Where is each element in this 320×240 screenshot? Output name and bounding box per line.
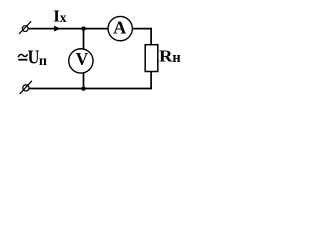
voltmeter PV1 [69, 49, 93, 73]
current direction arrow Ix [54, 26, 60, 32]
wire voltmeter top lead [83, 29, 85, 49]
node junction top (voltmeter tap) [81, 26, 85, 30]
terminal X2 (bottom-left input terminal) [20, 81, 32, 94]
svg-text:п: п [39, 54, 47, 69]
wire ammeter to corner [133, 28, 152, 30]
node junction bottom (voltmeter return) [81, 86, 85, 90]
wire bottom horizontal (terminal X2 to resistor) [29, 88, 152, 90]
svg-text:A: A [113, 18, 126, 38]
resistor Rn body [145, 45, 158, 72]
wire voltmeter bottom lead [83, 73, 85, 89]
label Un (supply voltage) [18, 46, 47, 69]
svg-text:x: x [60, 10, 67, 25]
svg-text:н: н [172, 50, 180, 66]
wire resistor top lead (vertical) [150, 28, 152, 45]
label Ix [53, 6, 66, 25]
ammeter PA1 [108, 16, 132, 40]
label Rn [159, 46, 181, 66]
svg-text:U: U [28, 46, 40, 69]
wire top horizontal (terminal X1 to ammeter) [28, 28, 108, 30]
terminal X1 (top-left input terminal) [19, 21, 31, 34]
wire resistor bottom lead (vertical) [150, 71, 152, 89]
svg-text:V: V [76, 49, 89, 69]
